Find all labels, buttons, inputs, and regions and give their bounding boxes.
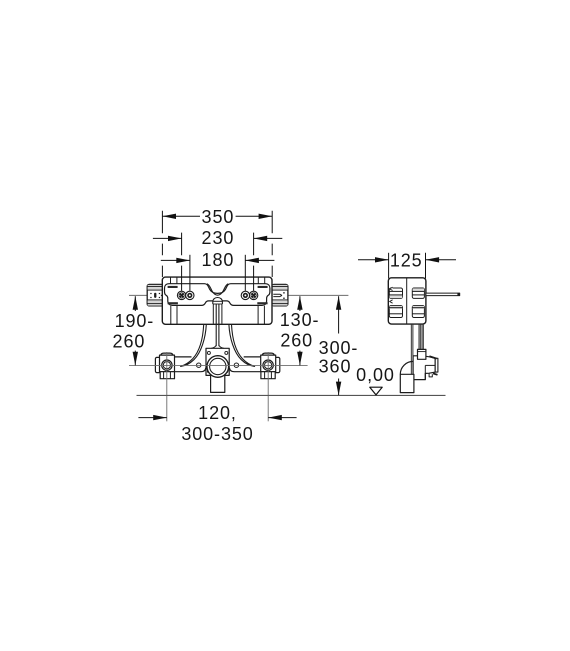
screw outer-left ring <box>177 291 185 299</box>
dim 180 arrows <box>161 259 190 261</box>
rib patch top-left <box>389 288 402 298</box>
bottom hook step <box>429 373 432 377</box>
plate hole left <box>197 363 201 367</box>
dim 190-260 arrows (left vertical) <box>134 296 136 311</box>
dim 125 arrows <box>358 259 389 261</box>
screw inner-right socket <box>241 291 249 299</box>
svg-text:130-: 130- <box>280 310 320 330</box>
side body center parting line <box>406 278 408 324</box>
center flange square <box>206 348 229 375</box>
stem thin rod <box>215 304 217 346</box>
flange top wedge <box>429 356 436 358</box>
svg-text:190-: 190- <box>115 311 155 331</box>
dim 120/300-350 arrows (bottom) <box>138 417 166 419</box>
left clamp top cap <box>161 353 173 358</box>
left clamp vertical centerline <box>166 352 168 421</box>
dim 125 ext lines <box>388 253 390 279</box>
svg-text:125: 125 <box>390 250 423 270</box>
dim 300-360 arrows <box>338 296 340 333</box>
svg-text:0,00: 0,00 <box>356 365 395 385</box>
right support arm <box>229 325 255 367</box>
svg-text:230: 230 <box>202 228 235 248</box>
stem flare <box>211 345 223 348</box>
dim 180 ext lines <box>189 255 191 291</box>
plate hole right <box>234 363 238 367</box>
grip pad top-right <box>258 286 268 288</box>
dim 230 ext lines <box>182 233 254 291</box>
grip pad top-left <box>168 286 178 288</box>
svg-text:120,: 120, <box>198 403 237 423</box>
elbow inner lines <box>424 365 426 379</box>
elbow outlet <box>400 374 414 392</box>
dim 230 arrows <box>153 237 182 239</box>
center stem cap dome <box>213 298 223 305</box>
right clamp ring <box>263 360 273 370</box>
svg-text:300-: 300- <box>319 338 359 358</box>
left coupling body <box>147 284 163 306</box>
screw inner-left socket <box>186 291 194 299</box>
center fitting inner circle <box>210 358 226 374</box>
svg-text:260: 260 <box>280 331 313 351</box>
dim 350 line <box>162 215 200 217</box>
rib patch bottom-right <box>412 306 424 318</box>
dim 130-260 arrows <box>299 296 301 311</box>
grip pad bottom-left <box>168 302 178 304</box>
screw outer-left phillips <box>179 293 184 298</box>
svg-text:360: 360 <box>319 356 352 376</box>
center outlet stub <box>211 374 225 392</box>
center fitting outer circle <box>207 356 229 378</box>
left clamp ring <box>162 360 172 370</box>
right clamp vertical centerline <box>267 352 269 421</box>
connector block <box>418 349 426 359</box>
body feature verticals above faceplate <box>170 277 172 283</box>
elbow flange <box>435 358 438 372</box>
lower centerline <box>129 364 308 366</box>
right clamp side tab <box>274 357 280 372</box>
faceplate with center bowl <box>165 284 270 306</box>
left clamp side tab <box>155 357 161 372</box>
left clamp main block <box>160 355 175 372</box>
flange bottom wedge <box>433 373 438 374</box>
svg-text:350: 350 <box>202 207 235 227</box>
side pipe right <box>426 293 460 296</box>
elbow outer arc <box>400 361 413 374</box>
elbow body <box>413 356 435 380</box>
left clamp foot <box>160 372 174 379</box>
clip chevron bottom <box>390 300 393 303</box>
svg-text:300-350: 300-350 <box>181 424 253 444</box>
support plate left segment <box>175 357 206 372</box>
clip chevron top <box>390 287 393 290</box>
upper centerline right segment <box>288 294 349 296</box>
flush pipe verticals <box>418 325 420 350</box>
rib patch bottom-left <box>389 306 402 318</box>
right coupling slot symbol <box>273 292 284 299</box>
right clamp top cap <box>262 353 274 358</box>
floor baseline <box>137 394 446 396</box>
rib patch top-right <box>412 288 424 298</box>
flange corner screws <box>207 351 210 354</box>
side body <box>388 278 426 324</box>
screw outer-right phillips <box>249 291 257 299</box>
datum triangle <box>370 387 382 395</box>
faceplate center bowl inner line <box>207 284 228 296</box>
upper centerline left segment <box>129 294 147 296</box>
right coupling body <box>272 284 288 306</box>
main body outline (front view) <box>162 277 272 324</box>
dim 350 ext lines <box>162 211 272 277</box>
thin drop pipe <box>410 325 412 377</box>
svg-text:180: 180 <box>202 250 235 270</box>
svg-text:260: 260 <box>113 332 146 352</box>
right clamp main block <box>261 355 276 372</box>
stem outer tube <box>212 304 214 324</box>
grip pad bottom-right <box>257 302 267 304</box>
right clamp foot <box>261 372 275 379</box>
body feature verticals below faceplate <box>170 306 172 324</box>
left support arm <box>181 325 207 367</box>
support plate right segment <box>230 357 261 372</box>
left coupling center slot symbol <box>150 293 163 298</box>
